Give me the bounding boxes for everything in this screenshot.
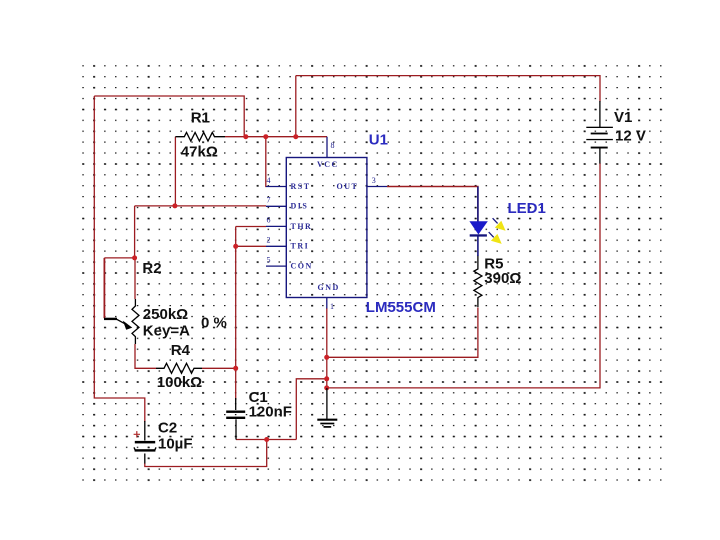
svg-text:0 %: 0 % [201,314,227,331]
svg-text:VCC: VCC [317,160,339,169]
svg-text:2: 2 [267,236,271,245]
svg-text:R1: R1 [191,109,210,126]
svg-text:CON: CON [291,262,313,271]
svg-text:5: 5 [267,256,271,265]
svg-text:7: 7 [267,196,271,205]
svg-text:1: 1 [330,302,334,311]
svg-text:U1: U1 [369,131,388,148]
svg-text:250kΩ: 250kΩ [143,306,188,323]
svg-text:Key=A: Key=A [143,322,190,339]
svg-text:6: 6 [267,216,271,225]
svg-text:10µF: 10µF [158,436,193,453]
svg-text:R2: R2 [142,260,161,277]
svg-text:120nF: 120nF [249,404,292,421]
svg-text:4: 4 [267,176,271,185]
svg-text:8: 8 [331,141,335,150]
svg-text:GND: GND [318,283,340,292]
svg-text:OUT: OUT [337,182,359,191]
svg-text:LM555CM: LM555CM [366,299,436,316]
svg-text:LED1: LED1 [508,200,546,217]
svg-text:47kΩ: 47kΩ [181,144,218,161]
svg-text:RST: RST [291,182,311,191]
svg-text:390Ω: 390Ω [484,270,521,287]
svg-text:100kΩ: 100kΩ [157,374,202,391]
svg-text:12 V: 12 V [615,128,646,145]
svg-text:C2: C2 [158,420,177,437]
svg-text:THR: THR [291,222,313,231]
svg-text:R4: R4 [171,342,191,359]
svg-text:TRI: TRI [291,242,310,251]
svg-text:3: 3 [372,176,376,185]
svg-text:DIS: DIS [291,202,309,211]
svg-text:V1: V1 [614,109,632,126]
